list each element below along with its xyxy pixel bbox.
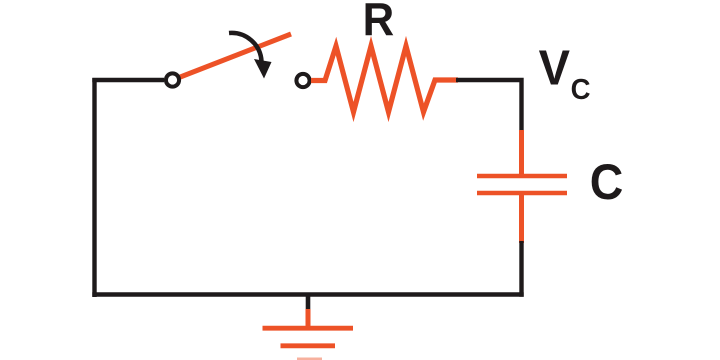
wire capacitor to bottom-right corner — [519, 241, 523, 297]
ground bar 2 — [281, 343, 336, 348]
switch terminal node right — [296, 74, 309, 87]
ground stub orange — [306, 309, 311, 328]
label C — [590, 154, 624, 210]
wire left vertical — [92, 78, 96, 297]
svg-text:C: C — [571, 72, 591, 105]
capacitor C bottom plate — [477, 191, 567, 196]
ground bar 1 — [263, 326, 354, 331]
svg-text:V: V — [539, 40, 570, 95]
ground stub black — [306, 295, 311, 312]
capacitor C top lead — [519, 130, 524, 174]
switch SW1 blade — [179, 34, 291, 78]
switch arc arrow — [229, 33, 262, 61]
switch terminal node left — [166, 73, 179, 86]
switch arrowhead — [254, 59, 272, 79]
wire top-left horizontal — [92, 78, 164, 82]
svg-text:C: C — [590, 154, 624, 210]
svg-text:R: R — [363, 0, 395, 45]
ground bar 3 (faint, at image edge) — [297, 358, 322, 360]
label V subscript C — [571, 72, 591, 105]
label V — [539, 40, 570, 95]
label R — [363, 0, 395, 45]
wire resistor to top-right corner — [456, 80, 522, 132]
resistor R zigzag — [311, 46, 458, 112]
capacitor C top plate — [477, 174, 567, 179]
capacitor C bottom lead — [519, 195, 524, 243]
wire bottom horizontal — [92, 292, 523, 296]
